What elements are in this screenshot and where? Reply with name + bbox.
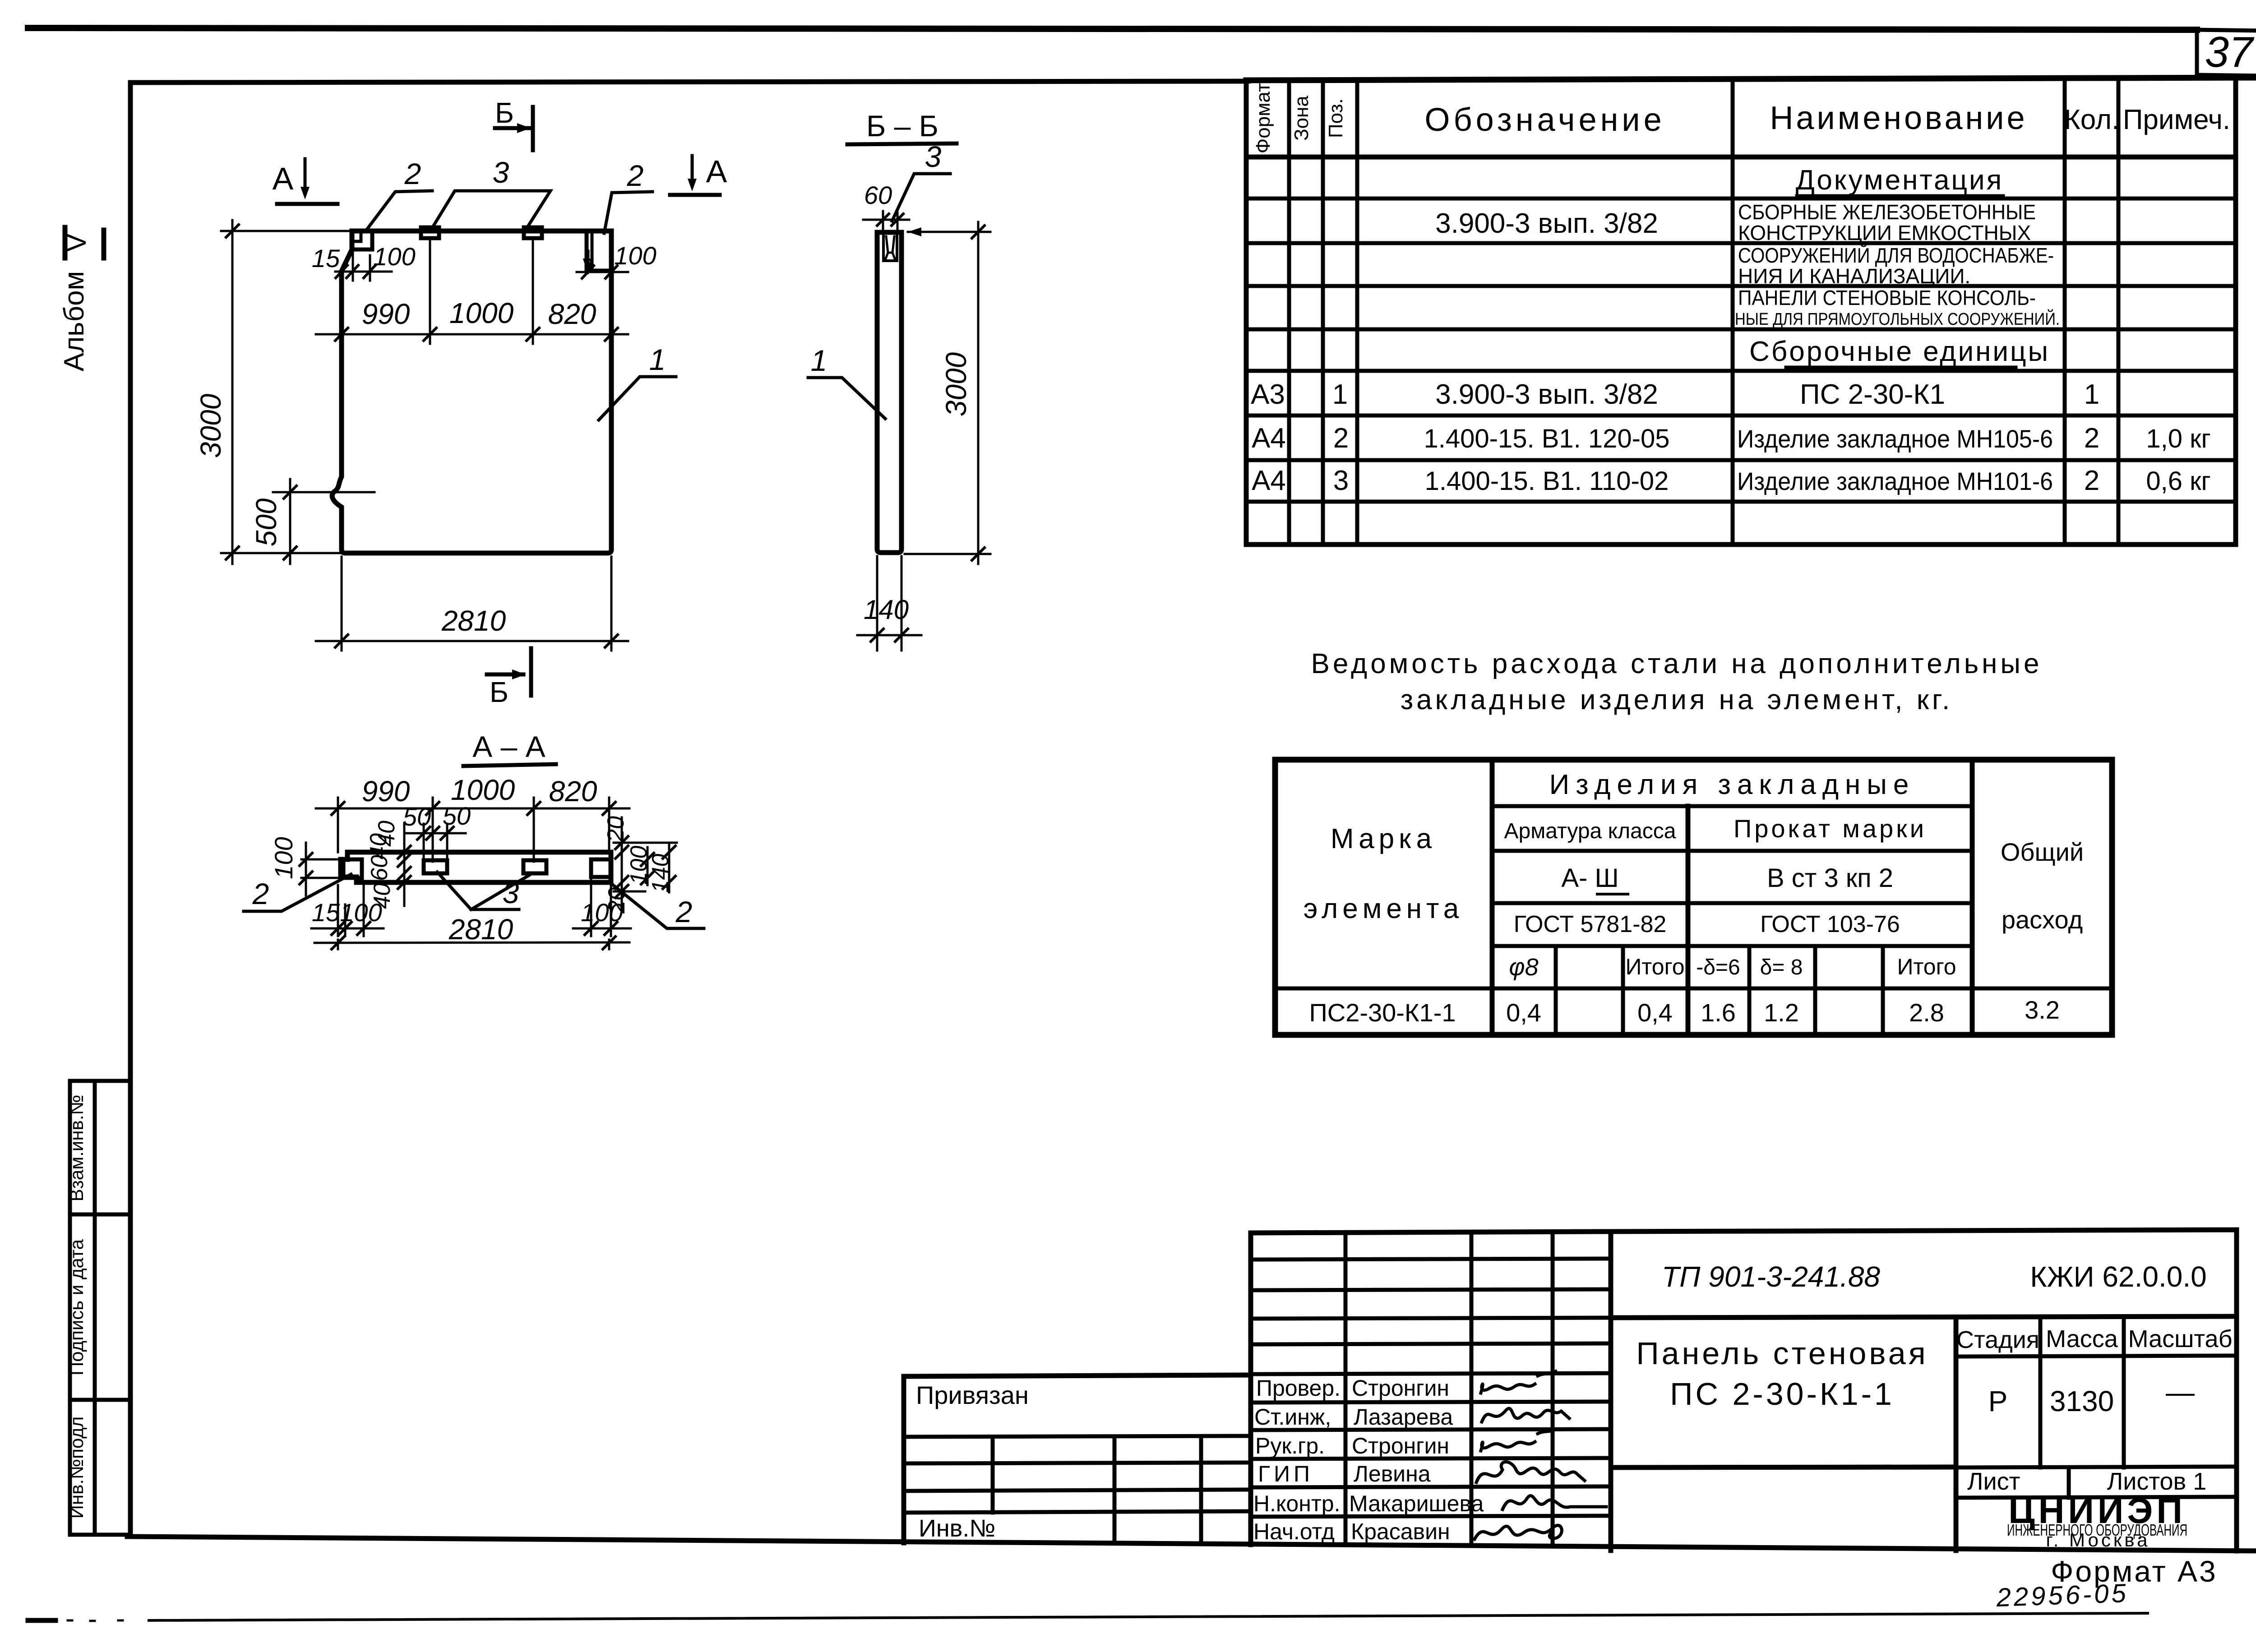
spec row МН105-6 — [1252, 423, 2211, 454]
svg-text:В ст 3 кп 2: В ст 3 кп 2 — [1767, 863, 1893, 893]
svg-text:3: 3 — [1333, 465, 1349, 496]
signature rows labels — [1253, 1375, 1341, 1544]
embedded channel item3 section — [883, 232, 897, 261]
title block top row ТП 901-3-241.88 / КЖИ 62.0.0.0 — [1611, 1230, 2237, 1551]
leader label 3 (Б-Б) — [892, 140, 950, 221]
svg-text:Изделие закладное МН101-6: Изделие закладное МН101-6 — [1737, 467, 2053, 495]
svg-text:1: 1 — [811, 344, 828, 377]
svg-text:А: А — [706, 154, 727, 189]
vedomost cell А-III — [1561, 863, 1628, 894]
svg-text:100: 100 — [269, 837, 298, 879]
svg-text:1,0 кг: 1,0 кг — [2146, 424, 2210, 453]
svg-text:1.400-15. В1. 110-02: 1.400-15. В1. 110-02 — [1425, 466, 1669, 496]
vedomost header Общий расход — [2001, 838, 2084, 934]
section title Б-Б — [847, 109, 957, 144]
svg-text:820: 820 — [549, 775, 597, 808]
section title А-А — [463, 730, 556, 766]
spec row ПС2-30-К1 — [1251, 379, 2099, 410]
leader label 3 — [432, 156, 550, 229]
svg-text:1.2: 1.2 — [1764, 998, 1799, 1027]
svg-text:ГОСТ 5781-82: ГОСТ 5781-82 — [1514, 911, 1667, 937]
top edge thick rule — [28, 28, 2197, 30]
svg-text:100: 100 — [614, 241, 656, 270]
embedded plate item2 top-left — [352, 231, 372, 249]
svg-text:2: 2 — [2084, 465, 2099, 496]
svg-text:Инв.№подл: Инв.№подл — [66, 1417, 87, 1519]
leader label 2 (left) — [366, 157, 432, 230]
svg-text:3.900-3 вып. 3/82: 3.900-3 вып. 3/82 — [1435, 379, 1658, 410]
svg-text:Примеч.: Примеч. — [2123, 104, 2230, 135]
svg-text:2: 2 — [252, 877, 269, 910]
svg-text:2: 2 — [1333, 423, 1349, 454]
svg-text:Левина: Левина — [1354, 1461, 1431, 1486]
svg-text:Панель стеновая: Панель стеновая — [1636, 1336, 1928, 1371]
dim 100 left vertical (А-А) — [269, 837, 343, 895]
svg-text:НЫЕ ДЛЯ ПРЯМОУГОЛЬНЫХ СООРУЖЕН: НЫЕ ДЛЯ ПРЯМОУГОЛЬНЫХ СООРУЖЕНИЙ. — [1735, 309, 2060, 329]
svg-text:100: 100 — [581, 898, 623, 927]
svg-text:3: 3 — [493, 156, 509, 189]
svg-text:1: 1 — [649, 343, 666, 376]
svg-text:37: 37 — [2205, 28, 2255, 76]
svg-text:А – А: А – А — [472, 730, 545, 763]
svg-text:А- Ш: А- Ш — [1561, 863, 1618, 893]
leader label 2 left (А-А) — [244, 874, 351, 911]
svg-text:КЖИ 62.0.0.0: КЖИ 62.0.0.0 — [2030, 1260, 2206, 1293]
svg-text:Поз.: Поз. — [1325, 98, 1347, 138]
svg-text:0,4: 0,4 — [1637, 998, 1673, 1027]
svg-text:Инв.№: Инв.№ — [919, 1515, 995, 1542]
svg-text:2810: 2810 — [441, 605, 506, 637]
svg-text:закладные изделия на элемент,: закладные изделия на элемент, кг. — [1401, 684, 1953, 715]
dim 100 bottom right (А-А) — [573, 880, 631, 936]
left attachment box Привязан — [904, 1375, 1251, 1543]
svg-text:500: 500 — [250, 498, 282, 546]
svg-text:г. Москва: г. Москва — [2046, 1529, 2150, 1550]
svg-text:А3: А3 — [1251, 379, 1285, 410]
section mark А left — [273, 159, 337, 204]
closure plate item3 right — [524, 227, 542, 238]
spec row Сборочные единицы — [1749, 336, 2050, 367]
svg-text:Альбом: Альбом — [59, 271, 90, 371]
svg-text:ПАНЕЛИ СТЕНОВЫЕ КОНСОЛЬ-: ПАНЕЛИ СТЕНОВЫЕ КОНСОЛЬ- — [1738, 286, 2036, 309]
organization ЦНИИЭП — [2007, 1490, 2187, 1550]
svg-text:Лазарева: Лазарева — [1354, 1404, 1453, 1430]
svg-text:3: 3 — [925, 140, 942, 173]
panel bar outline item1 (Б-Б) — [877, 232, 901, 553]
dim 500 vertical — [250, 479, 374, 564]
dim 2810 (А-А) — [314, 913, 629, 949]
svg-text:100: 100 — [373, 242, 415, 271]
svg-text:Б: Б — [490, 676, 509, 708]
leader label 2 (right) — [604, 159, 652, 233]
svg-text:2: 2 — [627, 159, 644, 192]
dim line 990/1000/820 — [316, 240, 628, 344]
spec naimenovanie multiline text — [1735, 200, 2060, 329]
signature rows names — [1349, 1375, 1484, 1544]
svg-text:Ведомость расхода стали на доп: Ведомость расхода стали на дополнительны… — [1311, 648, 2043, 679]
svg-text:1.400-15. В1. 120-05: 1.400-15. В1. 120-05 — [1424, 424, 1670, 453]
svg-text:Красавин: Красавин — [1351, 1519, 1450, 1544]
svg-text:Документация: Документация — [1796, 165, 2004, 196]
svg-text:Б: Б — [495, 97, 514, 129]
svg-text:Масса: Масса — [2046, 1325, 2118, 1352]
svg-text:100: 100 — [340, 898, 382, 927]
title Панель стеновая ПС2-30-К1-1 — [1611, 1318, 1956, 1550]
svg-text:2.8: 2.8 — [1909, 998, 1944, 1027]
svg-text:А4: А4 — [1252, 465, 1286, 496]
section mark Б top — [495, 97, 533, 150]
svg-text:СООРУЖЕНИЙ ДЛЯ ВОДОСНАБЖЕ-: СООРУЖЕНИЙ ДЛЯ ВОДОСНАБЖЕ- — [1738, 244, 2054, 267]
svg-text:расход: расход — [2002, 905, 2083, 934]
svg-text:НИЯ И КАНАЛИЗАЦИИ.: НИЯ И КАНАЛИЗАЦИИ. — [1738, 264, 1970, 288]
svg-text:15: 15 — [312, 244, 340, 272]
svg-text:140: 140 — [864, 595, 909, 625]
svg-text:-δ=6: -δ=6 — [1696, 955, 1740, 979]
vedomost table grid — [1275, 760, 2112, 1035]
svg-text:Арматура класса: Арматура класса — [1504, 819, 1676, 843]
dim chain 40/60/40 (А-А) — [365, 821, 411, 909]
svg-text:Изделие закладное МН105-6: Изделие закладное МН105-6 — [1737, 425, 2053, 453]
leader label 1 (Б-Б) — [808, 344, 885, 419]
Стадия Масса Масштаб cells — [1956, 1317, 2237, 1498]
svg-text:Общий: Общий — [2001, 838, 2084, 866]
svg-text:Обозначение: Обозначение — [1424, 102, 1665, 138]
dim line 990/1000/820 (А-А) — [316, 774, 629, 862]
closure plate item3 right (А-А) — [523, 860, 546, 873]
svg-text:20: 20 — [603, 816, 629, 843]
svg-text:3: 3 — [503, 876, 519, 909]
dim 3000 (Б-Б) — [905, 222, 990, 564]
svg-text:Подпись и дата: Подпись и дата — [66, 1239, 87, 1375]
svg-text:60: 60 — [366, 855, 393, 881]
svg-text:элемента: элемента — [1304, 893, 1463, 924]
svg-text:ТП 901-3-241.88: ТП 901-3-241.88 — [1662, 1260, 1880, 1293]
svg-text:Нач.отд: Нач.отд — [1253, 1519, 1335, 1544]
svg-text:Масштаб: Масштаб — [2128, 1325, 2232, 1352]
signature grid — [1251, 1232, 1611, 1550]
leader label 1 — [599, 343, 676, 420]
svg-text:3000: 3000 — [194, 393, 227, 458]
svg-text:Рук.гр.: Рук.гр. — [1255, 1433, 1325, 1458]
svg-text:0,6 кг: 0,6 кг — [2146, 466, 2210, 496]
svg-text:—: — — [2166, 1376, 2195, 1408]
svg-text:ПС2-30-К1-1: ПС2-30-К1-1 — [1309, 998, 1456, 1027]
svg-text:Зона: Зона — [1290, 96, 1313, 141]
svg-text:Привязан: Привязан — [916, 1381, 1029, 1409]
spec row МН101-6 — [1252, 465, 2211, 496]
svg-text:3.900-3 вып. 3/82: 3.900-3 вып. 3/82 — [1435, 208, 1658, 239]
dim 15/100 top-left — [312, 242, 416, 281]
svg-text:Р: Р — [1988, 1385, 2008, 1417]
album numeral IV with bars — [61, 227, 104, 258]
svg-text:Прокат марки: Прокат марки — [1734, 814, 1927, 843]
svg-text:Б – Б: Б – Б — [866, 109, 938, 143]
svg-text:0,4: 0,4 — [1506, 998, 1541, 1027]
dim 60 — [863, 181, 909, 230]
panel bar outline item1 (А-А) — [341, 852, 611, 882]
svg-text:Ст.инж,: Ст.инж, — [1254, 1404, 1331, 1430]
svg-text:140: 140 — [647, 854, 674, 893]
svg-text:Формат: Формат — [1252, 83, 1274, 153]
svg-text:δ= 8: δ= 8 — [1760, 955, 1803, 979]
svg-text:820: 820 — [548, 298, 596, 330]
closure plate item3 left — [421, 227, 439, 238]
svg-text:Взам.инв.№: Взам.инв.№ — [66, 1095, 87, 1202]
page number box 37 — [2197, 28, 2256, 76]
leader label 2 right (А-А) — [611, 883, 704, 928]
svg-text:1000: 1000 — [449, 297, 514, 329]
leader label 3 (А-А) — [437, 872, 529, 909]
svg-text:φ8: φ8 — [1509, 954, 1538, 981]
svg-text:ПС 2-30-К1-1: ПС 2-30-К1-1 — [1670, 1376, 1895, 1412]
svg-text:А: А — [273, 161, 294, 196]
svg-text:Итого: Итого — [1897, 954, 1956, 979]
svg-text:А4: А4 — [1252, 423, 1286, 454]
svg-text:Наименование: Наименование — [1770, 100, 2027, 136]
svg-text:50: 50 — [403, 803, 431, 831]
svg-text:50: 50 — [443, 802, 471, 830]
svg-text:Сборочные единицы: Сборочные единицы — [1749, 336, 2050, 367]
svg-text:ГИП: ГИП — [1258, 1461, 1313, 1486]
vedomost data row ПС2-30-К1-1 — [1309, 996, 2060, 1027]
svg-text:Стронгин: Стронгин — [1352, 1375, 1449, 1401]
svg-text:2: 2 — [2084, 423, 2099, 454]
svg-text:3.2: 3.2 — [2025, 996, 2060, 1024]
svg-text:60: 60 — [864, 181, 892, 209]
panel outline item1 — [332, 231, 611, 553]
dim 3000 vertical — [194, 220, 351, 564]
bottom scan edge line — [28, 1618, 55, 1623]
vedomost header Марка элемента — [1304, 823, 1463, 924]
svg-text:Стронгин: Стронгин — [1352, 1433, 1449, 1458]
svg-text:15: 15 — [312, 898, 340, 927]
svg-text:ГОСТ 103-76: ГОСТ 103-76 — [1760, 911, 1900, 937]
svg-text:2810: 2810 — [448, 913, 513, 946]
spec row Документация — [1796, 165, 2004, 196]
svg-text:КОНСТРУКЦИИ ЕМКОСТНЫХ: КОНСТРУКЦИИ ЕМКОСТНЫХ — [1738, 221, 2031, 245]
dim 100 top-right — [577, 241, 656, 278]
section mark А right — [670, 154, 727, 195]
svg-text:Марка: Марка — [1331, 823, 1436, 854]
svg-text:Стадия: Стадия — [1956, 1326, 2039, 1353]
svg-text:Провер.: Провер. — [1256, 1375, 1341, 1401]
svg-text:990: 990 — [362, 298, 410, 330]
svg-text:22956-05: 22956-05 — [1996, 1578, 2129, 1612]
svg-text:Макаришева: Макаришева — [1349, 1491, 1484, 1516]
svg-text:Изделия закладные: Изделия закладные — [1549, 769, 1915, 800]
svg-text:СБОРНЫЕ ЖЕЛЕЗОБЕТОННЫЕ: СБОРНЫЕ ЖЕЛЕЗОБЕТОННЫЕ — [1738, 200, 2036, 224]
left stamp column cells — [70, 1081, 130, 1535]
embedded plate item2 left (А-А) — [343, 859, 362, 878]
dim 15/100 bottom left (А-А) — [311, 885, 384, 936]
svg-text:3000: 3000 — [940, 352, 972, 416]
svg-text:3130: 3130 — [2050, 1385, 2114, 1417]
dim 140 (Б-Б) — [857, 556, 921, 651]
handwritten signatures — [1475, 1371, 1606, 1539]
svg-text:1: 1 — [2084, 379, 2099, 410]
svg-text:2: 2 — [675, 895, 693, 928]
svg-text:2: 2 — [404, 157, 421, 190]
spec table grid — [1246, 78, 2256, 545]
embedded plate item2 right (А-А) — [591, 859, 611, 877]
closure plate item3 left (А-А) — [424, 860, 447, 873]
embedded plate item2 top-right — [587, 231, 611, 271]
section mark Б bottom — [487, 648, 531, 708]
svg-text:1: 1 — [1332, 379, 1348, 410]
dim 50 50 (А-А) — [403, 802, 471, 862]
dim 2810 bottom — [316, 557, 628, 651]
svg-text:Н.контр.: Н.контр. — [1253, 1491, 1340, 1516]
svg-text:Кол.: Кол. — [2064, 104, 2120, 135]
svg-text:Итого: Итого — [1625, 954, 1684, 979]
dim chain 20/100/140 right (А-А) — [603, 816, 677, 914]
svg-text:1.6: 1.6 — [1701, 998, 1736, 1027]
svg-text:ПС 2-30-К1: ПС 2-30-К1 — [1800, 379, 1945, 410]
